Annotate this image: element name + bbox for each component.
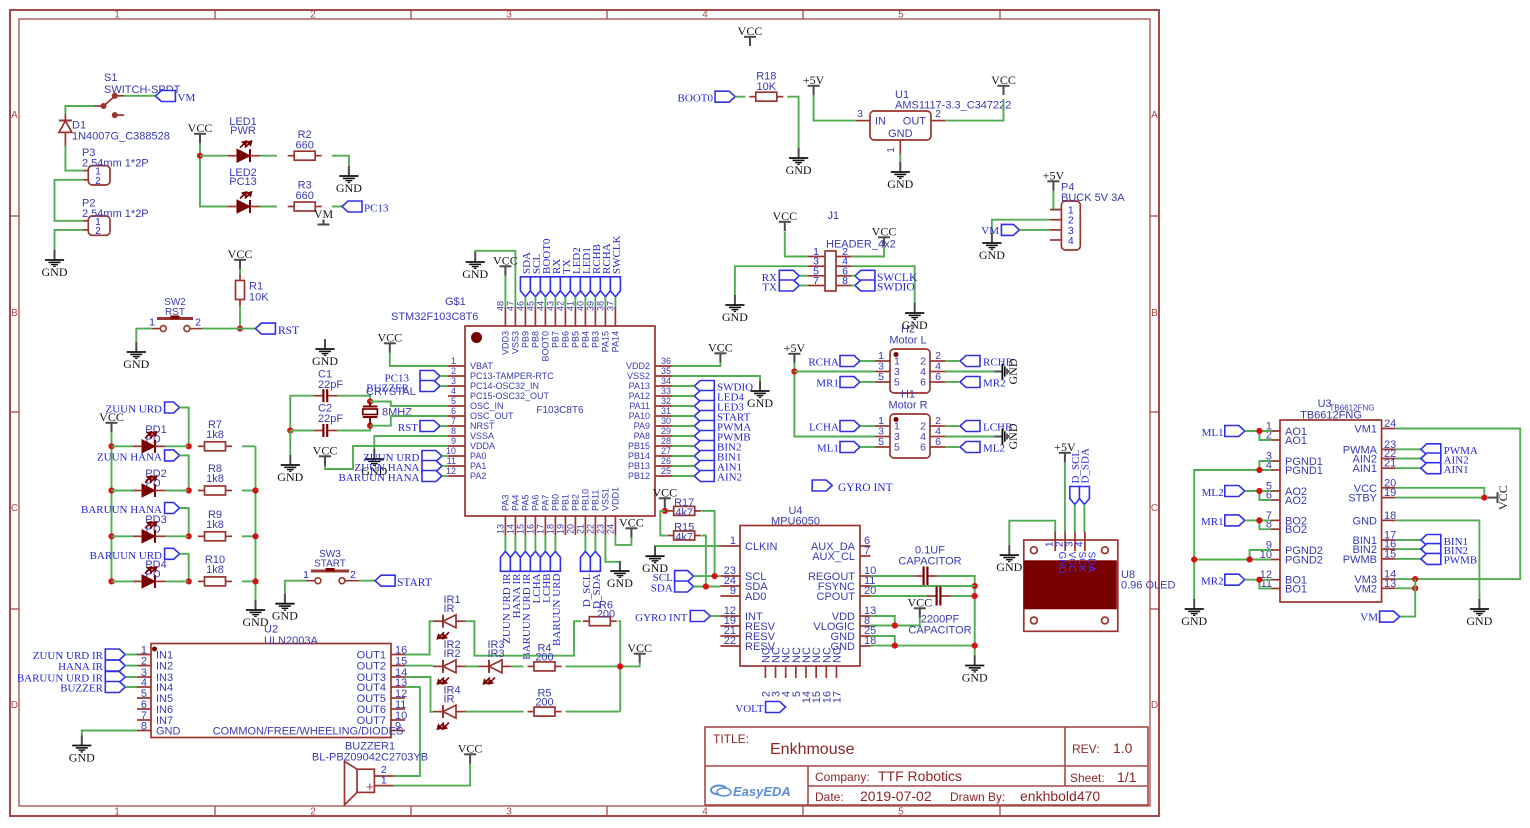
svg-text:REV:: REV: bbox=[1072, 742, 1100, 756]
svg-text:ZUUN HANA: ZUUN HANA bbox=[97, 451, 162, 463]
junction +5V H2 bbox=[791, 368, 797, 374]
resistor R4 bbox=[528, 665, 535, 667]
wire BARUUN URD IR to U2 bbox=[125, 676, 137, 678]
net flag SCL bbox=[675, 571, 694, 582]
title text bbox=[713, 732, 1137, 804]
net flag GYRO INT U4 bbox=[690, 611, 710, 622]
svg-text:Motor L: Motor L bbox=[889, 335, 926, 347]
resistor R2 bbox=[288, 155, 295, 157]
svg-text:BOOT0: BOOT0 bbox=[678, 93, 714, 105]
svg-text:6: 6 bbox=[451, 406, 456, 416]
svg-text:+: + bbox=[366, 779, 374, 794]
svg-text:Company:: Company: bbox=[815, 770, 870, 784]
svg-text:GND: GND bbox=[69, 751, 95, 765]
svg-text:4: 4 bbox=[451, 386, 456, 396]
net flag VM bbox=[155, 91, 175, 102]
svg-text:41: 41 bbox=[565, 301, 575, 311]
wire pin to LED4 bbox=[672, 395, 694, 397]
ground U4 bbox=[965, 656, 984, 672]
capacitor C1 bbox=[313, 395, 322, 397]
svg-text:VCC: VCC bbox=[1066, 552, 1077, 573]
svg-text:MR2: MR2 bbox=[1201, 576, 1224, 588]
H1 pins bbox=[875, 426, 945, 447]
svg-text:COMMON/FREE/WHEELING/DIODES: COMMON/FREE/WHEELING/DIODES bbox=[213, 726, 404, 738]
svg-text:IN: IN bbox=[875, 116, 886, 128]
net flag RX bbox=[779, 270, 799, 281]
svg-text:NC: NC bbox=[831, 647, 843, 663]
wire SW3 pin1 to GND bbox=[285, 581, 306, 594]
svg-text:39: 39 bbox=[585, 301, 595, 311]
wire rail to PD1 bbox=[112, 445, 134, 447]
svg-text:PA11: PA11 bbox=[629, 401, 650, 411]
svg-text:8: 8 bbox=[451, 426, 456, 436]
svg-text:15: 15 bbox=[515, 524, 525, 534]
net flag START MCU bbox=[694, 411, 714, 422]
svg-text:BL-PBZ09042C2703YB: BL-PBZ09042C2703YB bbox=[312, 752, 428, 764]
svg-text:PA12: PA12 bbox=[629, 391, 650, 401]
wire ZUUN URD to MCU bbox=[442, 455, 448, 457]
svg-text:PB5: PB5 bbox=[570, 331, 580, 348]
svg-text:STM32F103C8T6: STM32F103C8T6 bbox=[391, 311, 478, 323]
wire PD3 to flag junction bbox=[165, 535, 188, 537]
driver U2 ULN2003A bbox=[151, 644, 391, 738]
ground J1 pin3 bbox=[725, 295, 744, 311]
svg-text:PB3: PB3 bbox=[590, 331, 600, 348]
svg-text:5: 5 bbox=[894, 377, 900, 389]
ground VSS3 bbox=[466, 252, 485, 268]
wire GND to VSS3 bbox=[475, 251, 515, 307]
wire GND18 bbox=[871, 645, 975, 647]
driver U3 TB6612FNG bbox=[1280, 420, 1382, 602]
svg-text:VM1: VM1 bbox=[1354, 424, 1377, 436]
resistor R18 bbox=[749, 96, 756, 98]
svg-text:PB7: PB7 bbox=[550, 331, 560, 348]
svg-text:15: 15 bbox=[1384, 548, 1396, 560]
svg-text:1: 1 bbox=[451, 356, 456, 366]
wire AIN1 U3 bbox=[1395, 467, 1421, 469]
net flag D_SDA MCU bottom bbox=[590, 551, 600, 571]
title block bbox=[705, 727, 1148, 805]
svg-text:VM: VM bbox=[314, 207, 334, 221]
wire ML1 pin pair hook bbox=[1259, 431, 1270, 440]
svg-text:GND: GND bbox=[1006, 358, 1020, 384]
svg-text:9: 9 bbox=[451, 436, 456, 446]
wire pin to LCHA flag bbox=[534, 535, 536, 551]
svg-text:35: 35 bbox=[661, 366, 671, 376]
svg-text:IR: IR bbox=[444, 603, 455, 615]
svg-text:47: 47 bbox=[505, 301, 515, 311]
svg-text:Date:: Date: bbox=[815, 790, 844, 804]
net flag PC13 MCU bbox=[420, 371, 440, 382]
ground above C1 bbox=[315, 339, 334, 355]
sheet frame bbox=[10, 10, 1159, 816]
wire VLOGIC bbox=[871, 625, 895, 627]
connector P3 bbox=[88, 166, 110, 185]
svg-text:J1: J1 bbox=[828, 210, 840, 222]
wire +5V to P4 pin1 bbox=[1053, 191, 1061, 210]
wire ZUUN URD IR to U2 bbox=[125, 654, 137, 656]
svg-text:16: 16 bbox=[525, 524, 535, 534]
resistor R5 bbox=[528, 711, 535, 713]
svg-text:2: 2 bbox=[310, 10, 316, 21]
ground U1 bbox=[891, 162, 910, 178]
svg-text:4: 4 bbox=[702, 807, 708, 818]
wire R1 to RST net bbox=[239, 306, 241, 329]
svg-text:14: 14 bbox=[505, 524, 515, 534]
svg-text:29: 29 bbox=[661, 426, 671, 436]
junction MR1 bbox=[1256, 517, 1262, 523]
svg-text:PB11: PB11 bbox=[590, 490, 600, 511]
connector P4 bbox=[1061, 201, 1080, 250]
svg-text:GND: GND bbox=[786, 163, 812, 177]
LED PD4 bbox=[142, 575, 155, 588]
svg-text:40: 40 bbox=[575, 301, 585, 311]
svg-text:200: 200 bbox=[535, 697, 553, 709]
wire VM3 bbox=[1395, 578, 1415, 580]
wire LED1 flag to pin bbox=[584, 297, 586, 307]
junction GND25 bbox=[892, 643, 898, 649]
svg-text:Sheet:: Sheet: bbox=[1070, 771, 1105, 785]
svg-text:AD0: AD0 bbox=[745, 591, 766, 603]
svg-text:GND: GND bbox=[888, 128, 913, 140]
svg-text:4k7: 4k7 bbox=[675, 507, 693, 519]
wire J1 pin8 to SWDIO bbox=[851, 285, 855, 287]
net flag AIN2 MCU bbox=[694, 471, 714, 482]
svg-text:GND: GND bbox=[156, 726, 181, 738]
svg-text:13: 13 bbox=[495, 524, 505, 534]
svg-text:7: 7 bbox=[451, 416, 456, 426]
svg-text:B: B bbox=[11, 308, 18, 319]
junction pullup VCC bbox=[662, 508, 668, 514]
svg-text:TB6612FNG: TB6612FNG bbox=[1300, 410, 1362, 422]
svg-text:8: 8 bbox=[842, 275, 848, 287]
net flag BARUUN URD IR U2 bbox=[105, 672, 125, 683]
junction ML1 bbox=[1256, 428, 1262, 434]
wire H1 pin4 to GND bbox=[945, 436, 994, 438]
svg-text:PA3: PA3 bbox=[500, 495, 510, 511]
wire R8 to right rail bbox=[242, 490, 256, 492]
resistor R7 bbox=[198, 445, 205, 447]
header H2 Motor L bbox=[890, 349, 930, 393]
wire J1 pin3 to GND bbox=[735, 266, 808, 295]
wire pin to HANA IR flag bbox=[514, 535, 516, 551]
svg-text:PWMB: PWMB bbox=[1444, 555, 1478, 567]
junction STBY VCC bbox=[1481, 495, 1487, 501]
wire ZUUN HANA flag to row bbox=[180, 455, 189, 490]
svg-text:ZUUN URD: ZUUN URD bbox=[105, 404, 162, 416]
svg-text:PC13-TAMPER-RTC: PC13-TAMPER-RTC bbox=[470, 371, 554, 381]
ground P4 bbox=[982, 233, 1001, 249]
net flag RST bbox=[255, 323, 275, 334]
wire STBY bbox=[1395, 497, 1488, 499]
svg-text:3: 3 bbox=[506, 10, 512, 21]
wire SDA flag to pin bbox=[694, 586, 721, 588]
svg-text:25: 25 bbox=[661, 466, 671, 476]
wire P4 pin2 to GND bbox=[992, 220, 1050, 233]
wire VCC to MCU pin1 bbox=[390, 353, 448, 367]
wire SW2 pin1 to GND bbox=[136, 329, 152, 342]
crystal Y1 8MHZ bbox=[363, 402, 378, 426]
net flag ZUUN HANA MCU bbox=[422, 461, 442, 472]
wire U2 GND bbox=[82, 731, 137, 736]
ground SW2 bbox=[127, 342, 146, 358]
svg-text:PA15: PA15 bbox=[600, 331, 610, 352]
ground caps bbox=[281, 455, 300, 471]
svg-text:PC13: PC13 bbox=[229, 176, 257, 188]
svg-text:VSS1: VSS1 bbox=[600, 488, 610, 511]
svg-text:36: 36 bbox=[661, 356, 671, 366]
svg-text:5: 5 bbox=[898, 10, 904, 21]
svg-text:13: 13 bbox=[1384, 578, 1396, 590]
net flag SWCLK bbox=[855, 270, 875, 281]
svg-text:VDD2: VDD2 bbox=[626, 361, 650, 371]
svg-text:GND: GND bbox=[962, 671, 988, 685]
H2 pins bbox=[875, 361, 945, 382]
svg-text:7: 7 bbox=[864, 545, 870, 557]
wire H2 pin4 to GND bbox=[945, 371, 994, 373]
svg-text:2019-07-02: 2019-07-02 bbox=[860, 788, 932, 804]
junction FSYNC bbox=[972, 583, 978, 589]
svg-text:BARUUN URD: BARUUN URD bbox=[551, 573, 563, 645]
svg-text:200: 200 bbox=[535, 651, 553, 663]
wire U1 GND bbox=[899, 154, 901, 162]
wire R5 to rail bbox=[566, 711, 621, 713]
wire TX flag to pin bbox=[564, 297, 566, 307]
svg-text:PB2: PB2 bbox=[570, 494, 580, 511]
ground VSS2 bbox=[750, 381, 769, 397]
svg-text:BOOT0: BOOT0 bbox=[540, 331, 550, 362]
svg-text:28: 28 bbox=[661, 436, 671, 446]
U8 pins bbox=[1031, 532, 1109, 624]
svg-text:1: 1 bbox=[886, 147, 897, 153]
svg-text:GND: GND bbox=[462, 267, 488, 281]
wire R15 to SDA bbox=[702, 536, 706, 587]
wire R4 to VCC bbox=[566, 663, 640, 667]
junction PD3 net bbox=[186, 533, 192, 539]
svg-text:1k8: 1k8 bbox=[206, 519, 224, 531]
wire VCC to VDD2 bbox=[672, 363, 720, 367]
net flag AIN1 MCU bbox=[694, 461, 714, 472]
svg-text:22pF: 22pF bbox=[318, 413, 343, 425]
net flag RCHA bbox=[840, 356, 860, 367]
wire PD rail bbox=[111, 432, 113, 581]
svg-text:D: D bbox=[11, 700, 18, 711]
svg-text:D_SDA: D_SDA bbox=[1080, 448, 1092, 484]
wire RST flag to pin7 bbox=[440, 425, 448, 427]
svg-text:PC14-OSC32_IN: PC14-OSC32_IN bbox=[470, 381, 539, 391]
net flag ML1 U3 bbox=[1225, 426, 1245, 437]
svg-text:OSC_OUT: OSC_OUT bbox=[470, 411, 514, 421]
capacitor 0.1UF bbox=[914, 575, 923, 577]
junction RST bbox=[237, 326, 243, 332]
svg-text:GYRO INT: GYRO INT bbox=[838, 482, 893, 494]
net flag BIN2 U3 bbox=[1421, 544, 1441, 555]
junction crystal top bbox=[367, 398, 373, 404]
svg-text:43: 43 bbox=[545, 301, 555, 311]
wire RCHA flag to pin bbox=[604, 297, 606, 307]
junction PGND2 bbox=[1247, 556, 1253, 562]
net flag SWDIO MCU bbox=[694, 381, 714, 392]
svg-text:MR1: MR1 bbox=[816, 378, 839, 390]
wire SDA flag to pin bbox=[524, 297, 526, 307]
svg-text:6: 6 bbox=[935, 371, 941, 383]
wire VSS2 to GND bbox=[672, 376, 760, 381]
resistor R9 bbox=[198, 535, 205, 537]
resistor R15 bbox=[667, 535, 674, 537]
wire VCC to VDD1 bbox=[615, 535, 631, 545]
ground H1 bbox=[994, 429, 1008, 445]
svg-text:CRYSTAL: CRYSTAL bbox=[366, 386, 416, 398]
svg-text:23: 23 bbox=[595, 524, 605, 534]
svg-text:1: 1 bbox=[303, 569, 309, 581]
wire PGND2 hook bbox=[1250, 550, 1271, 560]
svg-text:PB4: PB4 bbox=[580, 331, 590, 348]
svg-text:660: 660 bbox=[296, 140, 314, 152]
svg-text:4: 4 bbox=[1068, 235, 1074, 247]
U2 pins bbox=[137, 655, 405, 731]
svg-text:19: 19 bbox=[1384, 487, 1396, 499]
svg-text:7: 7 bbox=[813, 275, 819, 287]
junction PD rail row 1 bbox=[108, 443, 114, 449]
wire BUZZER to U2 bbox=[125, 686, 137, 688]
U4 pins bbox=[720, 546, 870, 678]
resistor R1 bbox=[239, 274, 241, 281]
svg-text:22: 22 bbox=[585, 524, 595, 534]
H1 pin labels bbox=[878, 415, 941, 454]
ground VSS1 bbox=[610, 561, 629, 577]
wire S1 common to D1 bbox=[65, 106, 94, 114]
wire HANA IR to U2 bbox=[125, 665, 137, 667]
svg-text:PB13: PB13 bbox=[628, 461, 650, 471]
svg-text:6: 6 bbox=[935, 436, 941, 448]
svg-text:12: 12 bbox=[446, 466, 456, 476]
svg-text:2.54mm 1*2P: 2.54mm 1*2P bbox=[82, 208, 149, 220]
svg-text:18: 18 bbox=[545, 524, 555, 534]
capacitor C2 bbox=[313, 430, 322, 432]
wire IR1 to R6 bbox=[465, 621, 581, 656]
wire P2 pin2 to GND bbox=[55, 230, 84, 250]
wire RCHA to H2 bbox=[860, 360, 875, 362]
wire pin to ZUUN URD IR flag bbox=[504, 535, 506, 551]
svg-text:RST: RST bbox=[398, 422, 418, 434]
svg-text:22pF: 22pF bbox=[318, 379, 343, 391]
wire BARUUN HANA to MCU bbox=[442, 475, 448, 477]
svg-text:GND: GND bbox=[42, 265, 68, 279]
wire ML2 pin pair hook bbox=[1259, 491, 1270, 500]
svg-text:GND: GND bbox=[887, 177, 913, 191]
wire caps to GND bbox=[289, 431, 291, 456]
wire PWMB U3 bbox=[1395, 558, 1421, 560]
IMU U4 MPU6050 bbox=[740, 526, 860, 667]
svg-text:26: 26 bbox=[661, 456, 671, 466]
power VM small bbox=[323, 220, 325, 225]
MCU pins bbox=[448, 307, 672, 535]
net flag BARUUN URD MCU bottom bbox=[550, 551, 560, 571]
wire VM rail to flag bbox=[1400, 579, 1416, 617]
svg-text:GND: GND bbox=[277, 470, 303, 484]
svg-text:5: 5 bbox=[451, 396, 456, 406]
svg-text:4: 4 bbox=[1074, 541, 1085, 547]
wire H1 to LCHB bbox=[945, 425, 960, 427]
wire U3 GND bbox=[1395, 520, 1479, 599]
svg-text:PA10: PA10 bbox=[629, 411, 650, 421]
wire RX to J1 pin5 bbox=[799, 275, 808, 277]
svg-text:Drawn By:: Drawn By: bbox=[950, 790, 1005, 804]
svg-text:VSS2: VSS2 bbox=[627, 371, 650, 381]
svg-text:GND: GND bbox=[1353, 515, 1378, 527]
svg-text:PC13: PC13 bbox=[364, 203, 389, 215]
svg-text:D: D bbox=[1151, 700, 1158, 711]
wire pin to AIN1 bbox=[672, 465, 694, 467]
wire pin to D_SDA flag bbox=[594, 535, 596, 551]
svg-text:38: 38 bbox=[595, 301, 605, 311]
svg-text:2: 2 bbox=[95, 176, 101, 187]
LED LED1 bbox=[237, 149, 250, 162]
svg-text:PB9: PB9 bbox=[520, 331, 530, 348]
svg-text:OSC_IN: OSC_IN bbox=[470, 401, 504, 411]
net flag HANA IR U2 bbox=[105, 660, 125, 671]
svg-text:1k8: 1k8 bbox=[206, 564, 224, 576]
svg-text:44: 44 bbox=[535, 301, 545, 311]
svg-text:1.0: 1.0 bbox=[1113, 740, 1133, 756]
wire PD4 to flag junction bbox=[165, 580, 188, 582]
svg-text:48: 48 bbox=[495, 301, 505, 311]
wire pin to D_SCL flag bbox=[584, 535, 586, 551]
wire C2200 to rail bbox=[951, 595, 975, 597]
svg-text:BO1: BO1 bbox=[1285, 584, 1307, 596]
svg-text:3: 3 bbox=[506, 807, 512, 818]
LED PD3 bbox=[142, 530, 155, 543]
svg-text:CAPACITOR: CAPACITOR bbox=[898, 556, 961, 568]
wire OUT3 to IR4 bbox=[405, 677, 433, 712]
svg-text:AO1: AO1 bbox=[1285, 435, 1307, 447]
net flag RX MCU top bbox=[550, 277, 560, 297]
capacitor 2200PF bbox=[927, 595, 936, 597]
svg-text:2: 2 bbox=[350, 569, 356, 581]
svg-text:18: 18 bbox=[1384, 510, 1396, 522]
net flag AIN1 U3 bbox=[1421, 463, 1441, 474]
wire VCC to R1 bbox=[239, 269, 241, 274]
junction VM3 bbox=[1412, 576, 1418, 582]
svg-text:F103C8T6: F103C8T6 bbox=[536, 405, 584, 416]
svg-text:NRST: NRST bbox=[470, 421, 495, 431]
LED IR3 bbox=[489, 660, 502, 673]
junction PGND1 bbox=[1256, 467, 1262, 473]
svg-text:IR3: IR3 bbox=[487, 648, 504, 660]
svg-text:ML1: ML1 bbox=[817, 443, 839, 455]
wire pin to LED3 bbox=[672, 405, 694, 407]
svg-text:31: 31 bbox=[661, 406, 671, 416]
svg-text:1: 1 bbox=[381, 775, 387, 787]
wire rail to PD4 bbox=[112, 580, 134, 582]
wire BIN1 U3 bbox=[1395, 539, 1421, 541]
svg-text:5: 5 bbox=[878, 436, 884, 448]
net flag SCL MCU top bbox=[530, 277, 540, 297]
svg-text:VDD3: VDD3 bbox=[500, 331, 510, 355]
wire VCC to VDD3 bbox=[504, 276, 506, 308]
wire IR3 to R4 bbox=[511, 665, 524, 667]
net flag RCHA MCU top bbox=[600, 277, 610, 297]
svg-text:VM2: VM2 bbox=[1354, 583, 1377, 595]
wire VSSA to GND bbox=[374, 436, 448, 449]
net flag RCHB MCU top bbox=[590, 277, 600, 297]
svg-text:PA13: PA13 bbox=[629, 381, 650, 391]
svg-text:BARUUN HANA: BARUUN HANA bbox=[339, 472, 420, 484]
H2 pin labels bbox=[878, 350, 941, 389]
svg-text:1: 1 bbox=[114, 807, 120, 818]
net flag BARUUN URD IR MCU bottom bbox=[520, 551, 530, 571]
svg-text:START: START bbox=[314, 559, 346, 570]
